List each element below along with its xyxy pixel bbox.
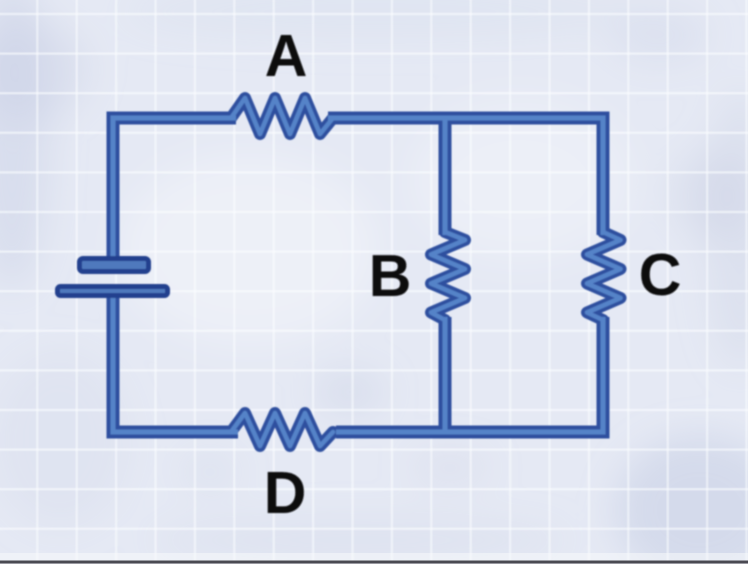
svg-text:A: A — [265, 23, 308, 89]
svg-text:D: D — [264, 460, 307, 526]
svg-text:C: C — [639, 242, 682, 308]
svg-text:B: B — [369, 243, 412, 309]
